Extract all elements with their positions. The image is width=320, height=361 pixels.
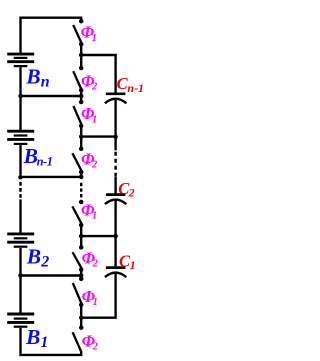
battery B2	[7, 234, 34, 247]
node dot left rail junction 2	[18, 175, 23, 180]
label C2	[118, 179, 134, 200]
wire right rail dashed segment	[114, 152, 116, 177]
svg-text:1: 1	[93, 297, 98, 308]
node dot switch8 top	[79, 325, 84, 330]
wire middle rail seg d8-d10	[80, 126, 82, 149]
node dot switch6 top	[79, 245, 84, 250]
switch arm phi1 seventh	[73, 283, 82, 303]
label phi1 switch3	[81, 104, 97, 125]
svg-text:2: 2	[92, 342, 99, 353]
switch arm phi1 third	[73, 106, 81, 124]
svg-text:n: n	[41, 74, 50, 91]
wire left rail segment Bn to junction	[19, 67, 21, 130]
wire left rail dashed segment	[19, 182, 21, 200]
svg-text:1: 1	[130, 258, 136, 272]
node dot switch1 top	[79, 19, 84, 24]
label C1	[119, 251, 136, 272]
switch arm phi2 eighth	[73, 332, 82, 352]
wire middle rail seg d2-d4	[80, 44, 82, 68]
switch arm phi2 second	[73, 71, 81, 89]
node dot switch1 bottom	[79, 42, 84, 47]
wire left rail segment Bn-1 to junction	[19, 145, 21, 178]
svg-text:1: 1	[92, 114, 97, 125]
node dot right rail junction 1	[113, 135, 118, 140]
svg-text:n-1: n-1	[37, 155, 53, 169]
node dot switch3 top	[79, 100, 84, 105]
node dot switch4 top	[79, 147, 84, 152]
svg-text:B: B	[26, 244, 41, 268]
node dot junction battery wire 2	[79, 175, 84, 180]
svg-text:2: 2	[40, 254, 49, 271]
battery Bn-1	[7, 131, 34, 144]
wire C2 bottom to junction to C1 top	[114, 200, 116, 266]
label phi2 switch4	[81, 149, 98, 170]
battery Bn	[7, 54, 34, 66]
node dot junction cap branch 2	[79, 134, 84, 139]
wire middle rail dashed segment	[80, 183, 82, 198]
node dot switch4 bottom	[79, 170, 84, 175]
svg-text:n-1: n-1	[127, 81, 144, 95]
wire middle rail seg d14-d16	[80, 225, 82, 247]
svg-text:2: 2	[91, 160, 98, 171]
label phi1 switch5	[81, 201, 97, 222]
wire middle rail seg d5-d7	[80, 90, 82, 102]
node dot right rail junction 2	[113, 234, 118, 239]
switch arm phi2 fourth	[72, 153, 81, 170]
svg-text:B: B	[25, 325, 40, 349]
node dot switch7 top	[79, 277, 84, 282]
node dot junction battery wire 3	[79, 273, 84, 278]
node dot switch5 top	[79, 200, 84, 205]
wire top: left rail top corner to middle rail	[21, 18, 82, 53]
wire left rail segment to B2	[19, 199, 21, 232]
battery B1	[7, 314, 34, 327]
node dot left rail junction 3	[18, 273, 23, 278]
node dot switch6 bottom	[79, 267, 84, 272]
label B2	[26, 244, 49, 270]
wire middle rail seg d20-d22	[80, 305, 82, 328]
node dot junction cap branch 4	[79, 315, 84, 320]
node dot switch3 bottom	[79, 124, 84, 129]
wire horizontal node below Bn-1 to switch chain	[21, 176, 82, 178]
wire C1 bottom to bottom right corner	[81, 273, 115, 318]
label phi2 switch6	[82, 248, 99, 269]
label B1	[25, 325, 48, 351]
node dot left rail junction 1	[18, 94, 23, 99]
capacitor C1	[105, 268, 126, 278]
wire left rail segment B2 to B1	[19, 248, 21, 313]
switch arm phi1 top	[73, 25, 81, 43]
svg-text:1: 1	[92, 211, 97, 222]
wire horizontal node B2/B1 to switch chain	[21, 274, 82, 276]
svg-text:B: B	[25, 64, 40, 88]
svg-text:1: 1	[92, 33, 97, 44]
node dot switch2 top	[79, 66, 84, 71]
node dot switch5 bottom	[79, 223, 84, 228]
label Cn-1	[117, 74, 144, 95]
node dot junction battery wire 1	[79, 94, 84, 99]
wire junction C1	[81, 235, 115, 237]
svg-text:2: 2	[128, 186, 135, 200]
wire Cn-1 bottom to junction	[114, 99, 116, 150]
wire junction C2	[81, 135, 115, 137]
node dot switch7 bottom	[79, 303, 84, 308]
svg-text:1: 1	[40, 334, 48, 351]
label phi2 switch8	[82, 332, 99, 353]
svg-text:2: 2	[92, 259, 99, 270]
wire middle rail seg d17-d19	[80, 270, 82, 279]
node dot switch2 bottom	[79, 88, 84, 93]
label phi1 switch1	[81, 23, 97, 44]
label phi1 switch7	[82, 287, 98, 308]
wire horizontal node Bn/Bn-1 to switch chain	[21, 95, 82, 97]
wire middle rail seg d11-dashed	[80, 172, 82, 178]
switch arm phi2 sixth	[73, 252, 82, 268]
wire to capacitor Cn-1 top	[81, 55, 115, 93]
switch arm phi1 fifth	[72, 206, 81, 223]
label Bn	[25, 64, 50, 90]
wire bottom: left rail to switch chain	[21, 328, 82, 355]
node dot junction cap branch 3	[79, 234, 84, 239]
capacitor C2	[105, 195, 126, 205]
label phi2 switch2	[81, 71, 98, 92]
node dot junction cap branch 1	[79, 53, 84, 58]
svg-text:2: 2	[91, 82, 98, 93]
label Bn-1	[23, 144, 53, 169]
capacitor Cn-1	[105, 94, 126, 104]
wire right rail to C2 top	[114, 177, 116, 193]
